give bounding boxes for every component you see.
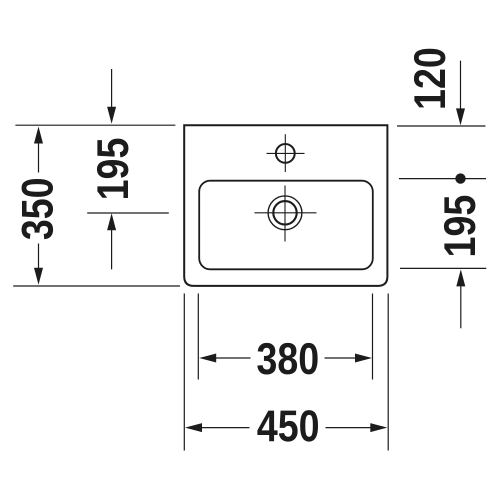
extension line 450 left [183,294,185,451]
dimension 380 [199,354,372,363]
basin outer rim [184,125,387,286]
label 120 [414,49,446,108]
label 450 [257,410,318,442]
extension line bowl top right [399,178,486,180]
dimension 120 [456,61,465,126]
dimension dot [455,173,465,183]
drain [255,186,317,242]
dimension 450 [185,423,387,432]
label 195 right [444,196,476,255]
basin inner bowl [199,181,373,270]
extension line bottom left [13,285,180,287]
label 350 [22,179,54,239]
label 380 [257,343,317,375]
drain centerline extension [87,212,169,214]
extension line top left [15,124,175,126]
dimension 195 left [107,69,116,269]
dimension 195 right [456,269,465,328]
faucet hole [267,134,305,172]
extension line 380 right [372,294,374,380]
extension line bowl bottom right [400,267,486,269]
extension line 450 right [387,294,389,451]
extension line top right [397,125,486,127]
extension line 380 left [197,294,199,380]
dimension 350 [34,127,43,285]
label 195 left [97,139,129,198]
